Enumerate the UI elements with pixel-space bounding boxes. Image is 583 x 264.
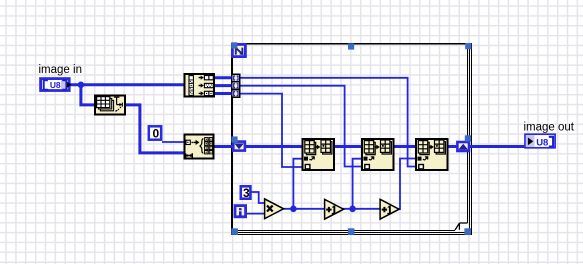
svg-text:3: 3: [243, 186, 250, 200]
svg-text:U8: U8: [536, 138, 548, 149]
svg-text:U8: U8: [50, 80, 61, 90]
svg-text:image out: image out: [524, 122, 575, 134]
svg-text:image in: image in: [39, 64, 82, 76]
svg-text:0: 0: [153, 126, 160, 140]
